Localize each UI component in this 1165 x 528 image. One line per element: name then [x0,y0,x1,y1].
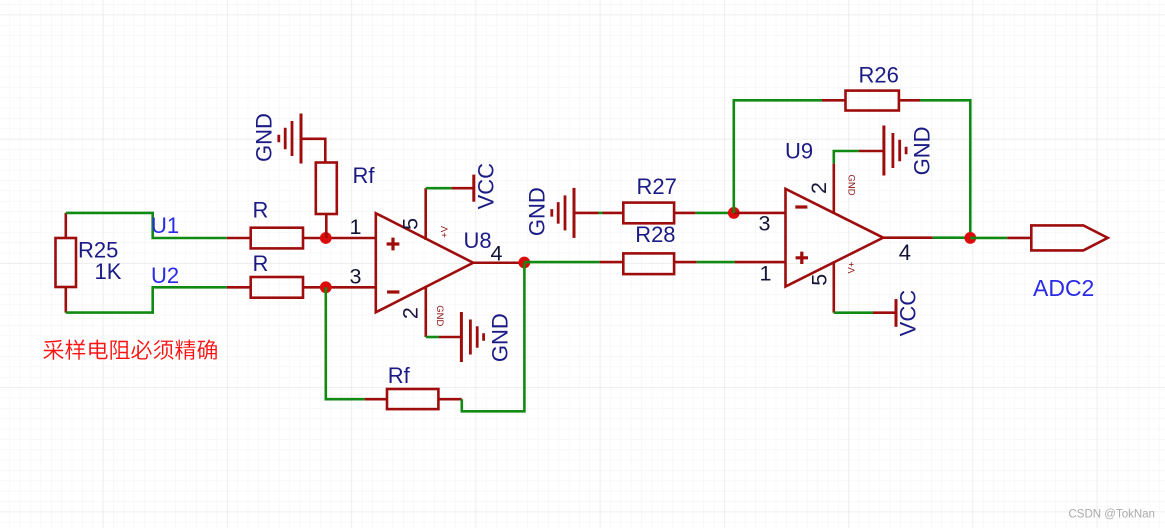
svg-text:GND: GND [525,187,550,236]
svg-text:Rf: Rf [388,363,411,388]
svg-text:2: 2 [807,182,831,194]
svg-text:GND: GND [488,313,513,362]
R25 top lead wire [65,213,68,238]
svg-text:GND: GND [910,126,935,175]
wire node to U9 pin3 [734,212,786,215]
R26 left lead [822,99,846,102]
svg-text:Rf: Rf [353,163,376,188]
svg-text:1K: 1K [95,259,122,284]
svg-text:R: R [253,198,269,223]
U9 output wire [883,236,933,239]
ground stub wire [301,138,325,141]
svg-text:5: 5 [399,218,423,230]
port ADC2 [1031,225,1107,250]
ground symbol U8 [460,312,463,362]
U8 minus input mark [387,290,399,293]
svg-text:V+: V+ [846,261,857,273]
svg-text:R: R [253,251,269,276]
svg-text:U8: U8 [464,228,492,253]
wire R to U8 pin3 [303,286,376,289]
ground symbol U9 [882,126,885,176]
node U8 output [518,257,530,269]
R28 right lead [674,261,697,264]
U8 output wire [473,261,524,264]
wire pin5 to VCC [426,187,452,190]
svg-text:1: 1 [350,215,362,239]
svg-text:1: 1 [760,262,772,286]
resistor R28 [623,253,674,274]
resistor Rf (top) [316,163,337,215]
svg-text:5: 5 [808,274,832,286]
U9 plus input mark [796,252,808,264]
svg-text:R27: R27 [637,174,677,199]
resistor Rf (bottom) [387,389,438,409]
wire pin2 to GND [426,336,439,339]
node U9 pin3 [728,207,740,219]
svg-text:3: 3 [350,265,362,289]
op-amp U9 [786,189,884,287]
node output [964,232,976,244]
svg-text:2: 2 [398,307,422,319]
R26 right lead [899,99,920,102]
port lead wire [1007,237,1031,240]
op-amp U8 [376,213,473,312]
VCC power bar (U9) [895,299,898,327]
Rf bottom left lead [365,398,387,401]
resistor R (upper) left lead [227,237,251,240]
GND stub wire (U9) [859,150,884,153]
resistor R26 [846,91,899,111]
svg-text:GND: GND [846,174,857,195]
wire net U1 top [66,213,227,238]
VCC stub wire (U8) [452,187,474,190]
wire node to port [970,237,1007,240]
R25 bottom lead wire [65,287,68,313]
U9 pin1 lead [735,261,786,264]
svg-text:CSDN @TokNan: CSDN @TokNan [1069,509,1155,521]
comment text [43,340,217,360]
wire node to R26 left [734,100,822,213]
svg-text:ADC2: ADC2 [1033,275,1094,301]
Rf bottom lead wire [325,214,328,238]
node junction row1 [320,232,332,244]
resistor R27 [623,203,674,224]
svg-text:GND: GND [434,305,445,326]
svg-text:3: 3 [759,212,771,236]
resistor R (lower) left lead [227,286,251,289]
wire Rf to U8 output node [462,263,525,412]
svg-text:U1: U1 [151,213,179,238]
VCC power bar (U8) [472,175,475,202]
wire U9 pin2 to GND [834,151,859,164]
wire GND to Rf [324,138,327,163]
svg-text:4: 4 [899,240,911,265]
resistor R (lower) [251,277,303,298]
svg-text:GND: GND [251,113,276,162]
wire U9 output to node [933,236,971,239]
R27 right lead [674,212,695,215]
node junction row2 [320,281,332,293]
svg-text:R28: R28 [635,222,675,247]
svg-text:R26: R26 [859,62,899,87]
wire R26 to output node [920,100,970,238]
U9 pin2 wire [832,164,835,214]
wire GND to R27 [599,212,603,215]
wire R to U8 pin1 [303,237,376,240]
R28 left lead [600,261,624,264]
ground symbol middle [573,188,576,238]
U9 minus input mark [795,205,807,208]
svg-text:+V: +V [440,225,451,238]
U8 pin5 wire [424,188,427,240]
U9 pin5 wire [832,262,835,313]
wire R28 to U9 pin1 [697,261,735,264]
svg-text:VCC: VCC [896,290,921,337]
resistor R (upper) [251,228,303,249]
wire junction to Rf bottom [326,287,365,399]
VCC stub wire (U9) [873,311,896,314]
U8 pin2 wire [424,286,427,337]
wire U8 output to R28 [524,261,599,264]
wire R27 to node [695,212,733,215]
Rf bottom right lead [438,398,461,401]
GND stub wire middle [574,212,599,215]
R27 left lead [603,212,624,215]
U8 plus input mark [387,238,400,251]
wire net U2 bottom [66,287,227,312]
wire U9 pin5 to VCC [834,311,873,314]
svg-text:U2: U2 [151,263,179,288]
svg-text:U9: U9 [785,139,813,164]
resistor R25 [56,238,77,287]
ground symbol top-left [300,114,303,164]
svg-text:VCC: VCC [474,163,499,210]
GND stub wire (U8) [439,336,461,339]
